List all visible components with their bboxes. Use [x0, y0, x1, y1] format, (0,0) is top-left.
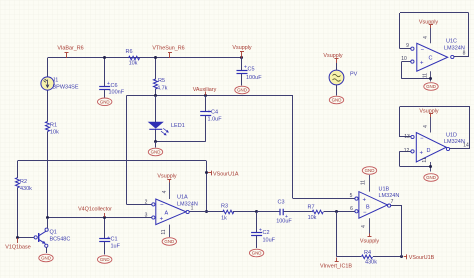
wire J1 branch top: [47, 58, 49, 77]
wire U1C loop left: [399, 13, 401, 49]
svg-text:C2: C2: [263, 230, 270, 236]
svg-text:100uF: 100uF: [246, 75, 262, 81]
svg-text:GND: GND: [100, 257, 110, 262]
svg-text:+: +: [363, 197, 367, 203]
node R5 top: [154, 56, 157, 59]
net Vsupply PV: [336, 59, 338, 63]
svg-text:Vsupply: Vsupply: [232, 45, 251, 51]
wire U1A out vertical: [206, 161, 208, 212]
svg-text:9: 9: [406, 43, 409, 49]
node U1A output: [205, 210, 208, 213]
svg-text:4: 4: [423, 36, 429, 39]
svg-text:3: 3: [145, 212, 148, 218]
svg-text:VInvert_IC1B: VInvert_IC1B: [320, 264, 352, 270]
wire VAux right drop: [292, 96, 294, 199]
wire R3 to C2 node: [233, 211, 257, 213]
wire LED branch: [155, 96, 157, 123]
wire C3 to R7: [283, 211, 312, 213]
svg-text:BC548C: BC548C: [50, 236, 71, 242]
svg-text:R6: R6: [125, 49, 132, 55]
wire base run: [18, 237, 35, 239]
svg-text:R4: R4: [364, 250, 371, 256]
capacitor C6: [99, 86, 110, 88]
svg-text:GND: GND: [426, 84, 436, 89]
node C6 top: [103, 56, 106, 59]
net VIaBar_R6: [66, 53, 68, 59]
U1D power pin 4: [430, 117, 432, 133]
svg-text:R7: R7: [307, 205, 314, 211]
svg-text:LM324N: LM324N: [379, 193, 400, 199]
wire R4 feedback drop: [336, 211, 338, 256]
svg-text:4: 4: [361, 225, 367, 228]
node C1 top: [103, 216, 106, 219]
capacitor C4: [200, 111, 211, 113]
node C4 top junction: [204, 94, 207, 97]
resistor R4: [362, 255, 373, 259]
wire C1 branch: [104, 218, 106, 238]
wire top supply rail: [48, 57, 243, 59]
svg-text:100uF: 100uF: [276, 219, 292, 225]
wire R4 right: [373, 256, 402, 258]
node VSourU1A label point: [205, 171, 208, 174]
wire to U1B pin5: [293, 198, 355, 200]
resistor R1: [46, 122, 50, 132]
resistor R2: [16, 178, 20, 188]
svg-text:11: 11: [161, 229, 167, 234]
svg-text:LM324N: LM324N: [444, 45, 465, 51]
svg-text:1.0uF: 1.0uF: [208, 117, 223, 123]
wire U1D loop left: [399, 107, 401, 137]
svg-text:430k: 430k: [365, 260, 377, 266]
capacitor C1: [99, 238, 110, 240]
svg-text:U1B: U1B: [379, 187, 390, 193]
svg-text:V1Q1base: V1Q1base: [5, 244, 30, 250]
capacitor C2: [251, 232, 262, 234]
svg-text:+: +: [420, 61, 424, 67]
svg-text:GND: GND: [237, 88, 247, 93]
svg-text:LM324N: LM324N: [444, 139, 465, 145]
wire U1D pin11 stub: [430, 162, 432, 172]
svg-text:10k: 10k: [50, 130, 59, 136]
svg-text:U1D: U1D: [446, 133, 457, 139]
svg-text:Vsupply: Vsupply: [419, 20, 438, 26]
svg-text:+: +: [420, 150, 424, 156]
svg-text:VTheSun_R6: VTheSun_R6: [152, 46, 184, 52]
wire U1C loop right: [468, 13, 470, 57]
wire U1D loop right: [469, 107, 471, 149]
ground under C6: [98, 98, 112, 106]
svg-text:D: D: [427, 148, 431, 154]
svg-text:U1A: U1A: [177, 195, 188, 201]
svg-text:GND: GND: [164, 239, 174, 244]
ground under U1A: [162, 238, 176, 246]
wire R1 to collector node: [47, 132, 49, 219]
ground under C5: [235, 86, 249, 94]
node supply C5: [240, 56, 243, 59]
wire to C3: [257, 211, 280, 213]
wire R2 branch lower: [17, 188, 19, 238]
svg-text:Vsupply: Vsupply: [419, 109, 438, 115]
net VAuxiliary: [205, 92, 207, 96]
svg-text:Vsupply: Vsupply: [360, 239, 379, 245]
wire U1C pin10 loop: [402, 61, 411, 63]
U1A power pin 4: [169, 183, 171, 200]
svg-text:VAuxiliary: VAuxiliary: [193, 87, 217, 93]
wire C2 branch: [256, 212, 258, 232]
svg-text:VIaBar_R6: VIaBar_R6: [57, 46, 83, 52]
svg-text:GND: GND: [332, 98, 342, 103]
wire U1C loop top: [400, 12, 469, 14]
svg-text:GND: GND: [252, 251, 262, 256]
svg-text:11: 11: [361, 180, 367, 185]
svg-text:4.7k: 4.7k: [157, 86, 168, 92]
svg-text:PV: PV: [350, 72, 358, 78]
wire U1C pin11 stub: [430, 71, 432, 81]
wire C4 branch: [205, 96, 207, 112]
svg-text:GND: GND: [426, 175, 436, 180]
svg-text:U1C: U1C: [446, 39, 457, 45]
svg-text:+: +: [160, 216, 164, 222]
svg-text:R3: R3: [221, 204, 228, 210]
svg-text:LED1: LED1: [171, 123, 185, 129]
net V1Q1base: [17, 238, 19, 243]
svg-text:C3: C3: [277, 200, 284, 206]
wire R2 branch upper: [17, 161, 19, 178]
resistor R6: [129, 56, 140, 60]
net VTheSun_R6: [169, 53, 171, 59]
wire R7 to pin6: [324, 211, 337, 213]
op-amp U1B LM324N: [359, 192, 388, 219]
net VSourU1B: [404, 256, 407, 258]
transistor Q1 BC548C: [34, 236, 37, 239]
svg-text:11: 11: [422, 157, 428, 162]
svg-text:13: 13: [404, 134, 410, 140]
net VInvert_IC1B: [336, 258, 338, 262]
ground under LED1: [148, 148, 162, 156]
net Vsupply U1B: [369, 234, 371, 237]
svg-text:VSourU1B: VSourU1B: [409, 255, 435, 261]
svg-text:5: 5: [350, 193, 353, 199]
wire PV top: [336, 63, 338, 70]
net VSourU1A: [208, 172, 211, 174]
wire R5 branch: [155, 58, 157, 80]
svg-text:10k: 10k: [129, 61, 138, 67]
node Q1 collector junction: [46, 216, 49, 219]
svg-text:C5: C5: [248, 67, 255, 73]
svg-text:10uF: 10uF: [263, 238, 276, 244]
net Vsupply top rail: [241, 52, 243, 59]
ground under PV: [329, 96, 343, 104]
svg-text:BPW34SE: BPW34SE: [53, 85, 79, 91]
svg-text:2: 2: [145, 199, 148, 205]
svg-text:100nF: 100nF: [109, 90, 125, 96]
node U1B pin6 junction: [335, 210, 338, 213]
wire C6 to ground: [104, 90, 106, 98]
svg-text:J1: J1: [53, 78, 59, 84]
svg-text:10k: 10k: [308, 215, 317, 221]
resistor R3: [223, 210, 234, 214]
svg-text:A: A: [165, 210, 169, 216]
svg-text:LM324N: LM324N: [177, 201, 198, 207]
ground above U1B: [362, 167, 376, 175]
U1A power pin 11: [169, 225, 171, 237]
wire Q1 emitter to gnd: [46, 247, 48, 253]
svg-text:−: −: [363, 210, 367, 216]
ground under U1C: [424, 83, 438, 91]
svg-text:1k: 1k: [221, 216, 227, 222]
svg-text:4: 4: [162, 190, 168, 193]
node R5 LED junction: [154, 94, 157, 97]
svg-text:8: 8: [463, 51, 466, 57]
solar cell PV: [329, 70, 344, 85]
wire C6 branch: [104, 58, 106, 87]
ground under C2: [249, 249, 263, 257]
node R4 output corner: [400, 255, 403, 258]
wire U1B out: [391, 205, 402, 207]
net V4Q1collector: [104, 213, 106, 217]
capacitor C5: [237, 70, 248, 72]
svg-text:C1: C1: [111, 237, 118, 243]
node Q1 base: [16, 236, 19, 239]
svg-text:12: 12: [404, 148, 410, 154]
svg-text:R1: R1: [50, 123, 57, 129]
svg-text:−: −: [421, 47, 425, 53]
capacitor C3: [279, 209, 281, 216]
svg-text:B: B: [366, 205, 370, 211]
svg-text:11: 11: [423, 73, 429, 78]
node LED bottom: [154, 140, 157, 143]
wire J1 to R1: [47, 90, 49, 122]
node C2 top: [255, 210, 258, 213]
wire R4 left: [337, 256, 361, 258]
svg-text:VSourU1A: VSourU1A: [213, 172, 239, 178]
svg-text:6: 6: [350, 206, 353, 212]
U1C power pin 4: [430, 28, 432, 43]
wire U1B out vertical: [401, 206, 403, 257]
op-amp U1A LM324N: [156, 199, 186, 225]
wire C5 stub: [241, 58, 243, 70]
wire Q1 collector: [47, 218, 49, 228]
svg-text:C: C: [429, 56, 433, 62]
wire PV bottom: [336, 85, 338, 96]
wire VQ1collector run: [48, 217, 152, 219]
wire LED bottom rail: [156, 141, 206, 143]
wire U1D pin12 loop: [400, 151, 411, 153]
U1B power pin 4: [369, 218, 371, 233]
svg-text:−: −: [160, 203, 164, 209]
svg-text:1uF: 1uF: [111, 244, 121, 250]
svg-text:Vsupply: Vsupply: [157, 174, 176, 180]
svg-text:4: 4: [423, 125, 429, 128]
svg-text:C4: C4: [211, 110, 218, 116]
net Vsupply U1D: [430, 114, 432, 117]
wire LED gnd stub: [155, 142, 157, 148]
svg-text:GND: GND: [365, 168, 375, 173]
wire feedback top R2 to U1A out: [18, 160, 207, 162]
LED LED1: [149, 122, 164, 128]
wire VAux left drop to U1A pin2: [126, 96, 128, 205]
svg-text:V4Q1collector: V4Q1collector: [78, 207, 112, 213]
svg-text:C6: C6: [111, 83, 118, 89]
svg-text:−: −: [420, 136, 424, 142]
photodiode source J1 BPW34: [41, 77, 54, 90]
resistor R7: [312, 210, 323, 214]
svg-text:7: 7: [391, 199, 394, 205]
svg-text:GND: GND: [100, 100, 110, 105]
svg-text:Q1: Q1: [50, 230, 57, 236]
ground under C1: [98, 256, 112, 264]
wire VAuxiliary rail: [127, 95, 294, 97]
svg-text:430k: 430k: [20, 186, 32, 192]
svg-text:R5: R5: [158, 78, 165, 84]
svg-text:Vsupply: Vsupply: [323, 53, 342, 59]
wire U1A out to R3: [189, 211, 223, 213]
wire U1D loop top: [400, 106, 471, 108]
ground under Q1: [39, 254, 53, 262]
net Vsupply U1A: [169, 180, 171, 183]
net Vsupply U1C: [430, 25, 432, 28]
svg-text:R2: R2: [20, 179, 27, 185]
svg-text:10: 10: [401, 56, 407, 62]
ground under U1D: [424, 174, 438, 182]
U1B power pin 11 to gnd above: [369, 175, 371, 192]
wire C1 to ground: [104, 242, 106, 255]
svg-text:GND: GND: [41, 256, 51, 261]
resistor R5: [154, 79, 158, 89]
svg-text:GND: GND: [151, 150, 161, 155]
